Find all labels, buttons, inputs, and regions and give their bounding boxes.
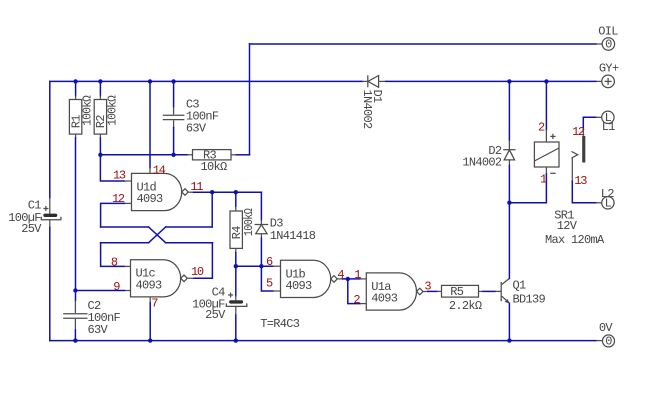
capacitor C3 100nF [163, 81, 185, 154]
svg-text:2.2kΩ: 2.2kΩ [449, 299, 482, 313]
wire timing node horizontal to pin6 [236, 265, 273, 267]
resistor R3 [188, 150, 237, 160]
wire D2 top from GY+ rail [508, 81, 510, 140]
node junction C4 bottom on 0V rail [234, 338, 238, 342]
wire GY+ rail left of D1 [50, 80, 363, 82]
node junction D3/pin5 on timing node [259, 264, 263, 268]
plus mark of relay coil [550, 134, 555, 139]
value 2.2k&#937; of R5 [449, 299, 482, 313]
pin number 3 [424, 279, 431, 293]
value 10k&#937; of R3 [201, 160, 228, 174]
svg-text:4093: 4093 [286, 279, 313, 293]
value 100k&#937; of R4 (rotated) [242, 208, 256, 236]
svg-text:4093: 4093 [371, 292, 398, 306]
wire U1c output riser to crossover [194, 243, 213, 279]
value 63V of C3 [186, 121, 207, 135]
resistor R1 [69, 81, 81, 138]
resistor R4 [230, 192, 242, 266]
wire R5 to Q1 base [483, 290, 495, 292]
svg-text:Max 120mA: Max 120mA [545, 233, 605, 247]
value 1N41418 of D3 [270, 229, 316, 243]
nand gate U1c 4093 [124, 260, 193, 303]
label R5 [450, 285, 464, 299]
label R1 (rotated) [69, 115, 83, 129]
pin number 1 [354, 268, 361, 282]
wire U1c pin9 net to R1/C2 node [75, 290, 124, 292]
node junction R2 top on GY+ rail [98, 79, 102, 83]
wire D3 bottom to timing node [260, 238, 262, 266]
pin number 12 (contact) [572, 125, 585, 139]
label D3 [270, 217, 284, 231]
plus mark of C4 [228, 293, 233, 298]
svg-text:100kΩ: 100kΩ [81, 95, 95, 125]
label C2 [88, 299, 102, 313]
wire crossover upper-right segment [166, 226, 213, 228]
value 25V of C1 [21, 222, 42, 236]
wire pin12 branch from crossover [101, 203, 125, 227]
nand gate U1d 4093 [124, 168, 193, 211]
svg-text:14: 14 [153, 163, 166, 177]
label D1 (rotated) [370, 90, 384, 104]
note T=R4C3 [260, 317, 300, 331]
svg-text:1N4002: 1N4002 [462, 156, 502, 170]
plus mark of C1 [43, 206, 48, 211]
value 63V of C2 [88, 323, 109, 337]
wire R3 right to OIL drop [236, 154, 250, 156]
diode D3 1N41418 [255, 220, 269, 239]
wire pin5 loop [261, 266, 273, 291]
pin number 10 [191, 265, 204, 279]
value 100uF of C1 [8, 211, 41, 225]
wire L1 to contact blade [583, 117, 596, 136]
label U1d [137, 180, 157, 194]
nand gate U1a 4093 [360, 273, 428, 310]
wire U1a output to R5 [428, 290, 437, 292]
svg-text:63V: 63V [88, 323, 109, 337]
svg-text:Q1: Q1 [513, 279, 527, 293]
terminal L1 [596, 111, 614, 125]
node junction C3 top on GY+ rail [171, 79, 175, 83]
svg-text:100kΩ: 100kΩ [105, 95, 119, 125]
svg-text:4093: 4093 [136, 278, 163, 292]
node junction R4/C4 on timing node [234, 264, 238, 268]
wire crossover diagonal down [149, 227, 166, 243]
wire Q1 collector vertical [508, 203, 510, 279]
svg-text:L2: L2 [601, 187, 615, 201]
label L1 [602, 120, 616, 134]
wire crossover lower-left segment [101, 242, 149, 244]
capacitor C1 100uF electrolytic [41, 198, 61, 227]
svg-text:0: 0 [605, 38, 612, 52]
terminal 0V [596, 335, 614, 349]
svg-text:12V: 12V [557, 219, 578, 233]
relay SR1 coil [509, 81, 559, 202]
label R4 (rotated) [230, 226, 244, 240]
wire crossover diagonal up [149, 227, 166, 243]
svg-text:1N41418: 1N41418 [270, 229, 316, 243]
resistor R2 [94, 81, 106, 138]
svg-text:63V: 63V [186, 121, 207, 135]
pin number 6 [266, 255, 273, 269]
node junction C2 bottom on 0V rail [73, 338, 77, 342]
value 100k&#937; of R1 (rotated) [81, 95, 95, 125]
value 100nF of C2 [88, 311, 121, 325]
pin number 11 [190, 180, 203, 194]
node junction pin14 supply on GY+ rail [148, 79, 152, 83]
value 4093 of U1b [286, 279, 313, 293]
wire R1 bottom long vertical to pin9 node [75, 138, 77, 300]
terminal GY+ [596, 75, 614, 88]
wire pin14 supply vertical [149, 81, 151, 167]
label Q1 [513, 279, 527, 293]
node junction pin1/pin2 tie [346, 277, 350, 281]
node junction R4 top at U1d output [234, 190, 238, 194]
label R2 (rotated) [94, 115, 108, 129]
label U1b [286, 267, 306, 281]
wire D3 top from U1d output [260, 192, 262, 220]
label C3 [186, 98, 200, 112]
wire RC node horizontal (R2/C3/R3) [100, 154, 187, 156]
value 1N4002 of D2 [462, 156, 502, 170]
pin number 2 (coil top) [538, 120, 545, 134]
node junction U1c pin7 on 0V rail [148, 338, 152, 342]
diode D1 1N4002 [362, 75, 385, 87]
pin number 14 [153, 163, 166, 177]
pin number 1 (coil bottom) [540, 173, 547, 187]
wire R2 bottom to RC node [99, 138, 101, 155]
node junction Q1 emitter on 0V rail [507, 338, 511, 342]
value 100uF of C4 [192, 297, 225, 311]
capacitor C4 100uF electrolytic [226, 266, 247, 340]
svg-text:13: 13 [574, 174, 587, 188]
svg-text:T=R4C3: T=R4C3 [260, 317, 300, 331]
node junction relay coil top on GY+ rail [544, 79, 548, 83]
label U1c [136, 267, 156, 281]
terminal OIL [596, 38, 615, 52]
value 100k&#937; of R2 (rotated) [105, 95, 119, 125]
label C4 [212, 286, 226, 300]
pin number 9 [113, 280, 120, 294]
node junction D2 top on GY+ rail [507, 79, 511, 83]
value 12V of SR1 [557, 219, 578, 233]
wire contact common to L2 [572, 158, 596, 203]
value 100nF of C3 [186, 110, 219, 124]
wire 0V bottom rail [50, 340, 596, 342]
value BD139 of Q1 [513, 293, 546, 307]
node junction R2/pin13 on RC node [98, 153, 102, 157]
label SR1 [554, 209, 574, 223]
wire pin2 loop [348, 279, 360, 304]
node junction latch feedback at U1d output [210, 190, 214, 194]
value Max 120mA of SR1 [545, 233, 605, 247]
nand gate U1b 4093 [273, 260, 343, 297]
label C1 [28, 199, 42, 213]
wire crossover lower-right segment [166, 242, 213, 244]
node junction R1 top on GY+ rail [73, 79, 77, 83]
label GY+ [599, 61, 619, 75]
wire U1b output to U1a pin1 [343, 278, 361, 280]
svg-text:100kΩ: 100kΩ [242, 208, 256, 236]
pin number 4 [337, 268, 344, 282]
label D2 [488, 144, 502, 158]
svg-text:1N4002: 1N4002 [360, 90, 374, 130]
svg-text:L1: L1 [602, 120, 616, 134]
svg-text:0: 0 [605, 335, 612, 349]
svg-text:OIL: OIL [598, 25, 618, 39]
svg-text:0V: 0V [599, 321, 614, 335]
diode D2 1N4002 [503, 140, 515, 166]
label OIL [598, 25, 618, 39]
label R3 [203, 148, 217, 162]
transistor Q1 BD139 [495, 278, 510, 303]
pin number 13 (contact) [574, 174, 587, 188]
node junction pin9/R1/C2 [73, 288, 77, 292]
resistor R5 [437, 285, 483, 297]
svg-text:4093: 4093 [137, 192, 164, 206]
wire left supply vertical (C1 to 0V rail) [49, 227, 51, 341]
wire U1d output net [194, 191, 262, 193]
capacitor C2 100nF [63, 300, 87, 340]
wire pin13 net from RC node [100, 155, 124, 181]
svg-text:BD139: BD139 [513, 293, 546, 307]
pin number 13 [113, 169, 126, 183]
label U1a [371, 280, 391, 294]
wire U1d output drop to crossover [211, 192, 213, 227]
label 0V [599, 321, 614, 335]
label L2 [601, 187, 615, 201]
pin number 8 [111, 256, 118, 270]
pin number 5 [266, 276, 273, 290]
value 4093 of U1a [371, 292, 398, 306]
wire OIL vertical drop to R3 node [249, 44, 251, 155]
node junction D2/coil/collector [507, 201, 511, 205]
value 25V of C4 [205, 308, 226, 322]
svg-text:12: 12 [572, 125, 585, 139]
wire Q1 emitter to 0V rail [508, 303, 510, 340]
relay SR1 contact blade [582, 136, 585, 163]
svg-text:25V: 25V [205, 308, 226, 322]
node junction C3 bottom on RC node [171, 153, 175, 157]
wire crossover upper-left segment [101, 226, 149, 228]
svg-text:GY+: GY+ [599, 61, 619, 75]
value 4093 of U1d [137, 192, 164, 206]
svg-text:25V: 25V [21, 222, 42, 236]
svg-text:10: 10 [191, 265, 204, 279]
pin number 2 [353, 293, 360, 307]
svg-text:R5: R5 [450, 285, 464, 299]
svg-text:10kΩ: 10kΩ [201, 160, 228, 174]
wire D2 bottom to coil node [508, 166, 510, 203]
value 4093 of U1c [136, 278, 163, 292]
relay SR1 contact arrow [572, 151, 578, 158]
wire OIL rail (top horizontal net) [250, 43, 597, 45]
pin number 7 [151, 296, 158, 310]
wire pin8 branch from crossover [101, 243, 125, 267]
svg-text:13: 13 [113, 169, 126, 183]
wire GY+ rail right of D1 [386, 80, 597, 82]
terminal L2 [596, 197, 614, 211]
pin number 12 [112, 192, 125, 206]
minus mark of relay coil [550, 172, 555, 174]
value 1N4002 of D1 (rotated) [360, 90, 374, 130]
wire left supply vertical (GY+ to C1) [49, 81, 51, 197]
wire U1c pin7 to 0V rail [149, 303, 151, 341]
